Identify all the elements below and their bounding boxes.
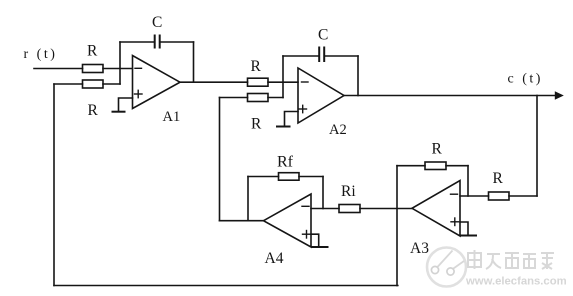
watermark brand glyphs	[468, 250, 554, 269]
resistor R (A1 lower / feedback-loop input)	[83, 80, 104, 88]
op-amp A2	[298, 68, 344, 123]
resistor Rf (A4 feedback)	[279, 173, 300, 181]
node c(t) output label	[508, 72, 543, 87]
wire Rf left down to A4 output	[247, 177, 249, 221]
resistor R (A2 upper input)	[248, 78, 269, 86]
ground (A3)	[462, 235, 477, 237]
capacitor C (A2 feedback)	[319, 48, 324, 62]
wire A2 noninverting input to ground	[285, 112, 299, 127]
wire A3 feedback right	[446, 165, 468, 167]
watermark elecfans logo	[427, 248, 466, 287]
op-amp A3	[412, 181, 460, 237]
wire junction vertical at A1 inverting node	[119, 42, 121, 84]
pin minus A4	[302, 205, 309, 207]
svg-text:R: R	[432, 141, 443, 158]
wire down to A3 input resistor	[509, 195, 537, 197]
op-amp A4	[264, 194, 312, 247]
wire C2 feedback left	[283, 55, 319, 57]
wire R to A2 inverting input	[268, 81, 298, 83]
wire R to A1 inverting input	[103, 68, 133, 70]
resistor R (A3 feedback)	[425, 162, 446, 170]
capacitor C (A1 feedback)	[155, 36, 160, 48]
wire input r(t) to R	[34, 68, 83, 70]
wire A4 output branch to lower R	[220, 97, 248, 99]
wire A3 noninverting input to ground	[460, 222, 468, 235]
wire A4 output	[220, 220, 264, 222]
svg-text:R: R	[251, 116, 262, 133]
wire A1 output to A2 input resistor	[180, 81, 248, 83]
wire C1 feedback left	[120, 41, 154, 43]
svg-text:www.elecfans.com: www.elecfans.com	[465, 276, 567, 288]
svg-text:Ri: Ri	[341, 183, 356, 200]
pin minus A2	[302, 81, 309, 83]
wire Ri to A4 inverting input	[311, 208, 339, 210]
wire C2 feedback down to A2 output	[357, 56, 359, 96]
wire Rf right down to A4 inverting input	[322, 177, 324, 209]
wire vertical A3 node down to bottom loop	[396, 166, 398, 286]
wire A1 noninverting input to ground	[119, 98, 133, 112]
pin plus A1	[135, 90, 143, 97]
wire loop left vertical	[53, 84, 55, 286]
wire lower R to A2 junction	[268, 97, 283, 99]
node r(t) input label	[24, 47, 58, 62]
wire c(t) tap down right side	[536, 96, 538, 197]
wire A2 output to c(t)	[344, 95, 556, 97]
svg-text:R: R	[87, 43, 98, 60]
pin plus A3	[451, 218, 459, 226]
resistor R (A1 upper input)	[83, 65, 104, 73]
wire Rf left	[248, 176, 279, 178]
svg-text:c (t): c (t)	[508, 72, 543, 87]
wire A4 noninverting input to ground	[311, 234, 319, 247]
wire C2 feedback right	[325, 55, 359, 57]
resistor Ri	[339, 205, 360, 213]
wire C1 feedback right	[160, 41, 194, 43]
wire C1 feedback down to A1 output	[193, 42, 195, 82]
svg-text:A3: A3	[410, 240, 429, 257]
ground (A2)	[277, 126, 290, 128]
svg-text:A4: A4	[265, 250, 284, 267]
arrowhead c(t)	[555, 91, 564, 99]
wire A3 feedback down to inverting input	[467, 166, 469, 196]
svg-text:r (t): r (t)	[24, 47, 58, 62]
ground (A1)	[113, 111, 125, 113]
svg-text:R: R	[251, 58, 262, 75]
wire A3 output	[360, 208, 412, 210]
wire loop bottom	[54, 285, 398, 287]
svg-text:Rf: Rf	[277, 154, 294, 171]
resistor R (A3 input)	[489, 192, 510, 200]
watermark url	[465, 276, 567, 288]
svg-text:C: C	[318, 27, 328, 44]
wire A4 output up to A2 lower resistor	[219, 98, 221, 221]
pin minus A3	[451, 193, 458, 195]
svg-text:A2: A2	[329, 122, 347, 138]
wire junction vertical at A2 inverting node	[282, 56, 284, 98]
wire lower R to junction	[103, 83, 120, 85]
svg-text:C: C	[152, 14, 162, 31]
pin plus A4	[303, 231, 311, 239]
wire A3 feedback left	[397, 165, 425, 167]
op-amp A1	[133, 56, 181, 109]
wire loop to lower R	[54, 83, 83, 85]
resistor R (A2 lower input)	[248, 94, 269, 102]
wire Rf right	[299, 176, 323, 178]
pin plus A2	[299, 105, 307, 112]
svg-text:R: R	[88, 102, 99, 119]
wire R to A3 inverting input	[460, 195, 489, 197]
svg-text:A1: A1	[163, 109, 181, 125]
svg-text:R: R	[493, 170, 504, 187]
ground (A4)	[312, 246, 328, 248]
pin minus A1	[135, 67, 142, 69]
